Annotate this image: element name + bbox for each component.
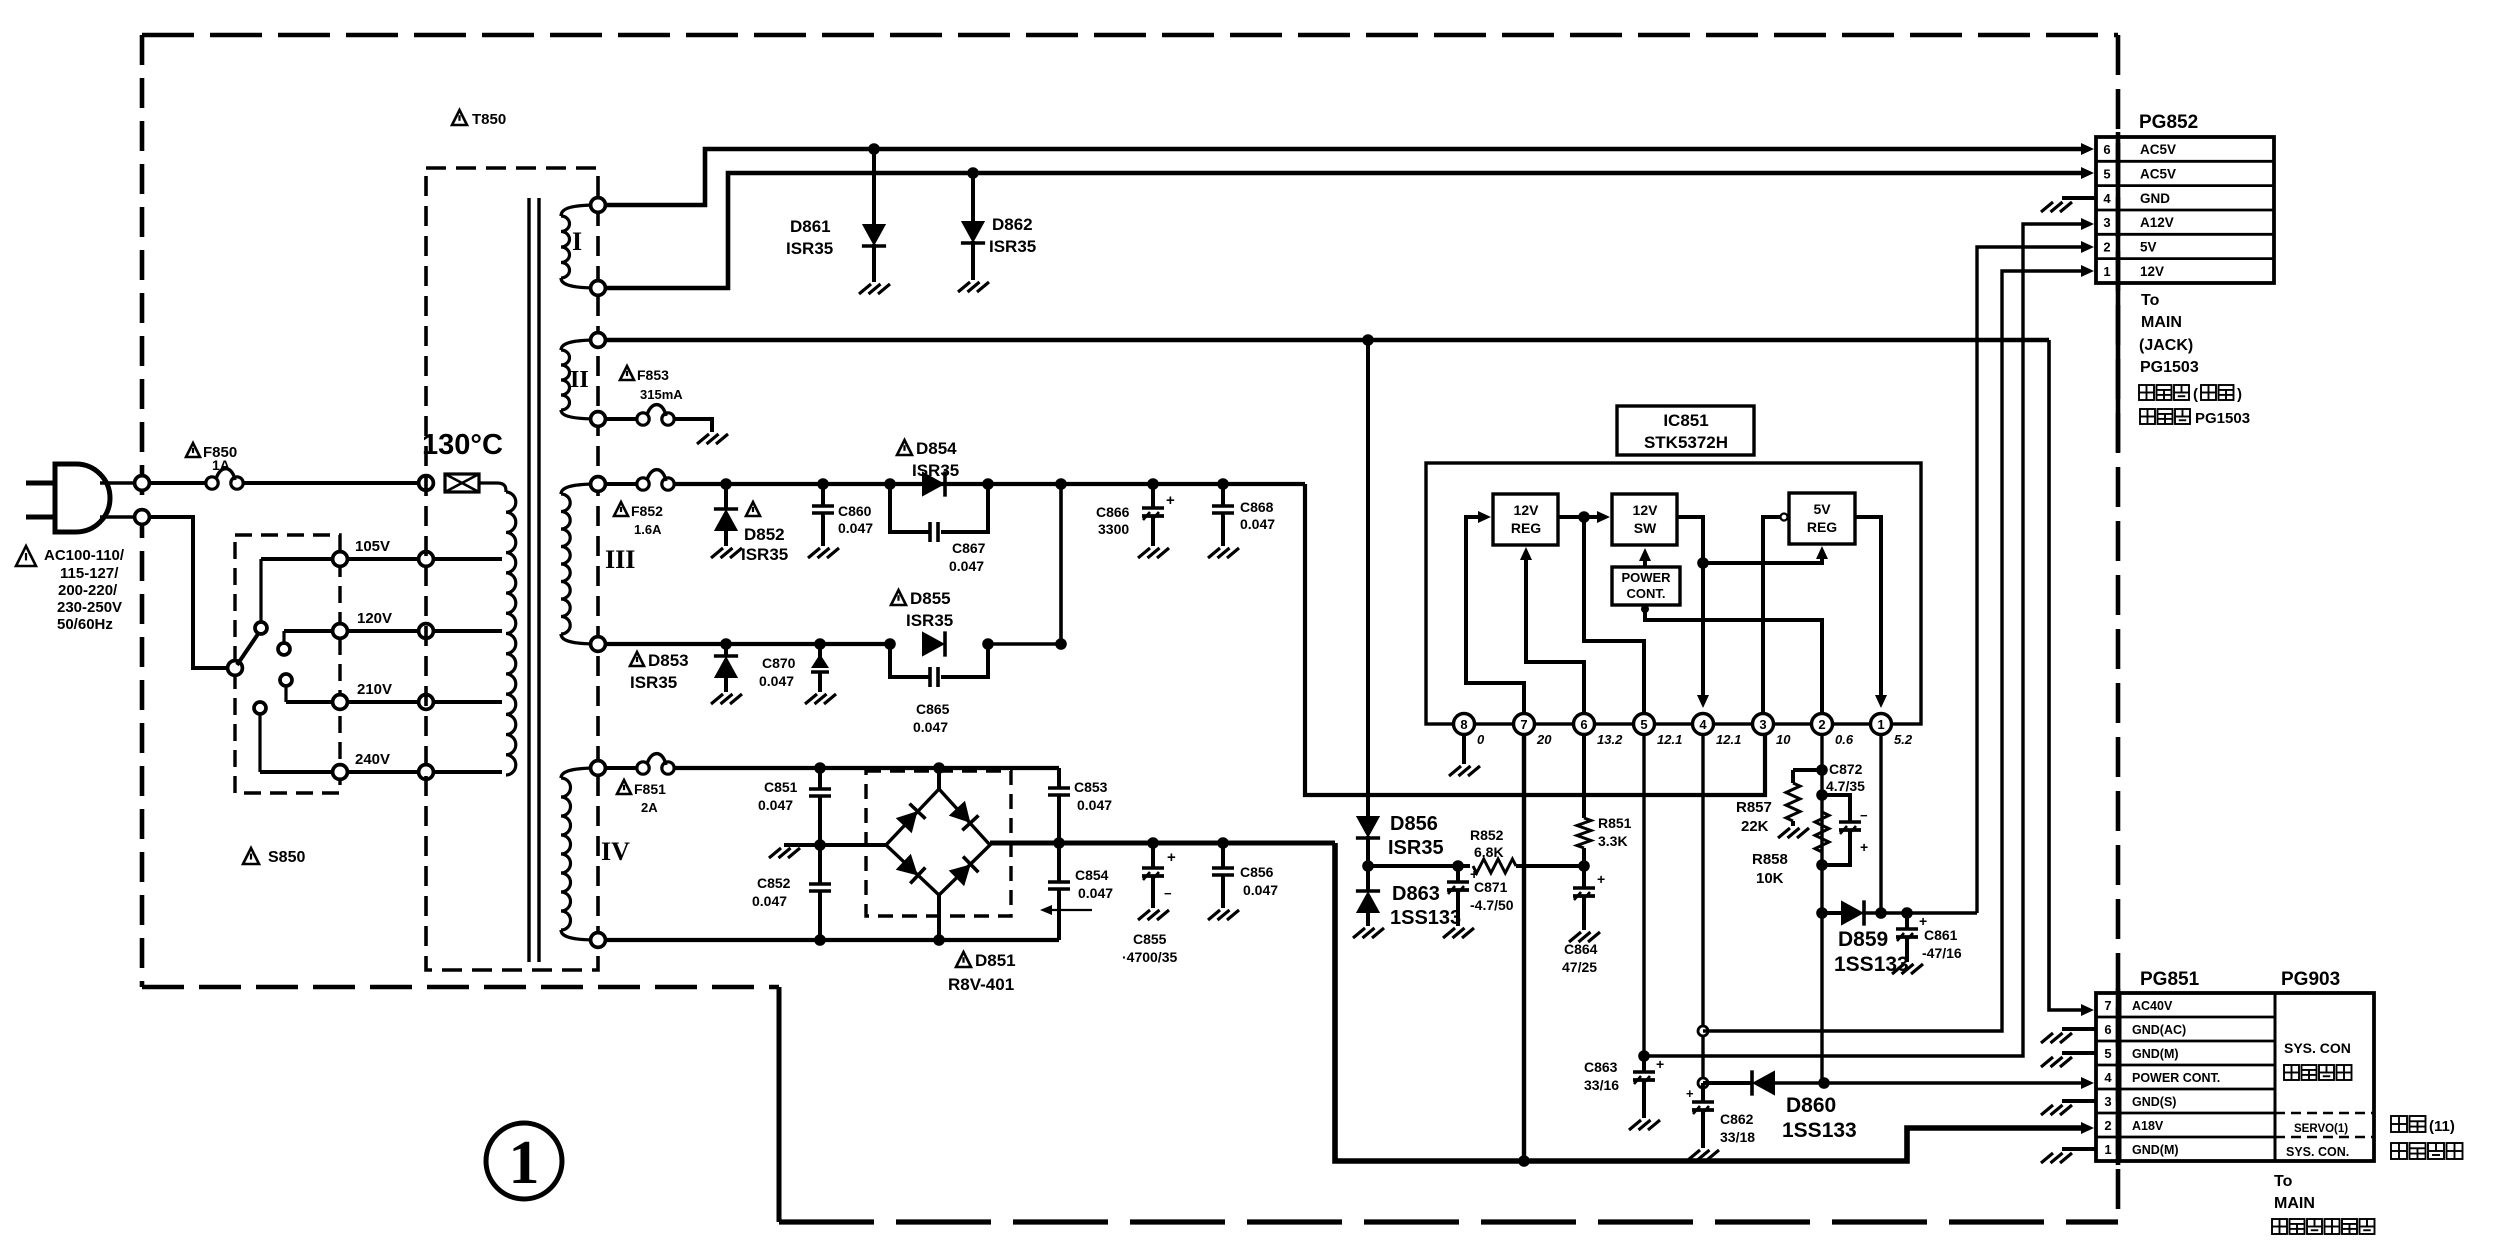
- arrow into pin1: [1875, 695, 1887, 708]
- node primary top: [419, 476, 434, 491]
- wire A18V rail: [1335, 843, 2082, 1161]
- wire POWER CONT to pin2: [1645, 604, 1822, 713]
- wire winding II bottom to F853: [604, 417, 637, 421]
- svg-text:3: 3: [2103, 215, 2110, 230]
- ground R857: [1778, 828, 1790, 838]
- wire 5V line: [1977, 247, 2082, 913]
- svg-text:230-250V: 230-250V: [57, 599, 122, 616]
- svg-text:CONT.: CONT.: [1627, 586, 1666, 601]
- wire pin3 to 5V REG input: [1763, 517, 1786, 713]
- arrow into PG852 pin5: [2081, 167, 2094, 179]
- svg-text:1: 1: [1877, 717, 1884, 732]
- svg-text:115-127/: 115-127/: [60, 565, 119, 582]
- node winding IV top: [591, 761, 606, 776]
- bridge D851 diode TR: [949, 801, 979, 831]
- capacitor C870 0.047: [818, 644, 822, 658]
- svg-text:GND: GND: [2140, 191, 2170, 206]
- wire pin6 to 12V REG bottom: [1526, 554, 1584, 713]
- block 5V REG: [1789, 493, 1855, 544]
- wire C865 loop: [890, 644, 929, 677]
- arrow into PG851 pin2: [2081, 1122, 2094, 1134]
- ground C870: [805, 694, 817, 704]
- label D854: [897, 440, 912, 455]
- svg-text:C868: C868: [1240, 499, 1274, 515]
- wire border solid through PG851: [2116, 988, 2121, 1165]
- svg-text:ISR35: ISR35: [630, 673, 677, 692]
- ground PG851 pin3: [2041, 1105, 2053, 1115]
- svg-text:(JACK): (JACK): [2139, 337, 2193, 354]
- svg-text:1: 1: [2103, 264, 2110, 279]
- capacitor C866 3300: [1151, 484, 1155, 508]
- wire bridge bottom: [937, 895, 941, 940]
- svg-text:10K: 10K: [1756, 870, 1784, 887]
- arrow 12V REG bottom: [1520, 547, 1532, 560]
- wire pin1 down: [1879, 734, 1882, 913]
- label D855: [891, 590, 906, 605]
- svg-text:0.047: 0.047: [758, 797, 793, 813]
- diode D861 1SR35: [872, 149, 876, 224]
- label F853: [620, 366, 634, 380]
- node C866 tap: [1147, 478, 1159, 490]
- resistor R852 6.8K: [1473, 859, 1516, 873]
- transformer primary winding: [497, 483, 506, 492]
- svg-text:(11): (11): [2429, 1118, 2455, 1135]
- svg-text:C867: C867: [952, 540, 986, 556]
- wire bridge minus: [784, 843, 886, 847]
- wire tap 210V: [286, 700, 502, 704]
- svg-text:+: +: [1597, 871, 1605, 887]
- svg-text:PG903: PG903: [2281, 969, 2340, 990]
- wire border solid through PG852: [2116, 132, 2121, 452]
- node C852 bottom: [814, 934, 826, 946]
- pin 3 IC851: [1753, 714, 1774, 735]
- node C860 tap: [817, 478, 829, 490]
- svg-text:12.1: 12.1: [1716, 732, 1741, 747]
- svg-text:C863: C863: [1584, 1059, 1618, 1075]
- node D854 left: [884, 478, 896, 490]
- ground C868: [1208, 548, 1220, 558]
- svg-text:4.7/35: 4.7/35: [1826, 778, 1865, 794]
- ground F853: [697, 434, 709, 444]
- svg-text:+: +: [1656, 1056, 1664, 1072]
- node C863 tap: [1638, 1050, 1650, 1062]
- svg-text:+: +: [1686, 1086, 1694, 1101]
- wire IV bottom line: [604, 938, 1059, 942]
- arrow 12V SW input: [1597, 511, 1610, 523]
- node AC line bottom: [135, 510, 150, 525]
- svg-text:IV: IV: [601, 837, 630, 866]
- svg-text:3.3K: 3.3K: [1598, 833, 1628, 849]
- svg-text:D856: D856: [1390, 813, 1438, 835]
- svg-text:R8V-401: R8V-401: [948, 975, 1014, 994]
- label AC voltage ratings: [16, 546, 36, 566]
- svg-text:F851: F851: [634, 781, 666, 797]
- node C861 tap: [1901, 907, 1913, 919]
- wire SW out to 5V REG bottom: [1703, 552, 1822, 563]
- svg-text:120V: 120V: [357, 610, 392, 627]
- capacitor C867 0.047: [928, 522, 932, 542]
- ground bridge minus: [769, 848, 781, 858]
- svg-text:5: 5: [2103, 167, 2110, 182]
- block POWER CONT: [1612, 567, 1680, 605]
- wire PG851 pin6 GND stub: [2062, 1027, 2096, 1031]
- ground PG851 pin6: [2041, 1033, 2053, 1043]
- node bridge bottom: [933, 934, 945, 946]
- svg-text:ISR35: ISR35: [906, 611, 953, 630]
- wire III top to F852: [604, 482, 637, 486]
- wire AC40V horizontal: [604, 338, 2049, 343]
- svg-text:REG: REG: [1807, 519, 1837, 535]
- svg-text:SYS. CON.: SYS. CON.: [2286, 1145, 2349, 1159]
- svg-text:1.6A: 1.6A: [634, 522, 662, 537]
- svg-text:AC5V: AC5V: [2140, 142, 2176, 157]
- pin 2 IC851: [1812, 714, 1833, 735]
- svg-text:C871: C871: [1474, 879, 1508, 895]
- wire 10V rail: [674, 482, 1305, 486]
- wire plug to selector S850: [148, 517, 228, 668]
- svg-text:PG1503: PG1503: [2195, 410, 2250, 427]
- node D854 right: [982, 478, 994, 490]
- node AC line top: [135, 476, 150, 491]
- svg-text:GND(M): GND(M): [2132, 1047, 2179, 1061]
- node winding I bottom: [591, 281, 606, 296]
- capacitor C868 0.047: [1221, 484, 1225, 506]
- node C870 tap: [814, 638, 826, 650]
- node pin4 D860 branch: [1698, 1078, 1708, 1088]
- svg-text:3: 3: [2104, 1094, 2111, 1109]
- svg-text:To: To: [2274, 1173, 2293, 1190]
- svg-text:1: 1: [2104, 1142, 2111, 1157]
- svg-text:AC40V: AC40V: [2132, 999, 2173, 1013]
- op-amp U1 IC851 outline: [1426, 463, 1921, 724]
- arrow into PG852 pin3: [2081, 218, 2094, 230]
- svg-text:PG852: PG852: [2139, 112, 2198, 133]
- node bridge top feed: [933, 762, 945, 774]
- wire pin4 down: [1701, 734, 1704, 1083]
- resistor R851 3.3K: [1582, 734, 1586, 818]
- svg-text:·4700/35: ·4700/35: [1122, 949, 1177, 965]
- svg-text:1SS133: 1SS133: [1834, 953, 1909, 976]
- annotation arrow: [1046, 909, 1092, 911]
- svg-text:C851: C851: [764, 779, 798, 795]
- svg-text:0.047: 0.047: [1077, 797, 1112, 813]
- svg-text:D862: D862: [992, 215, 1033, 234]
- block 12V REG: [1493, 494, 1558, 545]
- svg-text:R852: R852: [1470, 827, 1504, 843]
- svg-text:IC851: IC851: [1663, 411, 1708, 430]
- svg-text:5: 5: [1640, 717, 1647, 732]
- ground C864: [1569, 932, 1581, 942]
- svg-text:5V: 5V: [2140, 240, 2157, 255]
- svg-text:): ): [2237, 386, 2242, 403]
- svg-text:0: 0: [1477, 732, 1485, 747]
- wire outer dashed border right: [2116, 35, 2121, 1222]
- svg-text:D860: D860: [1786, 1094, 1836, 1117]
- svg-text:S850: S850: [268, 849, 305, 866]
- svg-text:GND(M): GND(M): [2132, 1143, 2179, 1157]
- capacitor C851 0.047: [818, 768, 822, 789]
- resistor R857 22K: [1793, 768, 1822, 772]
- arrow into PG852 pin6: [2081, 143, 2094, 155]
- capacitor C854 0.047: [1057, 843, 1061, 882]
- svg-text:D854: D854: [916, 439, 957, 458]
- node III join bottom: [1055, 638, 1067, 650]
- svg-text:POWER: POWER: [1621, 570, 1671, 585]
- label S850: [243, 848, 259, 864]
- arrow into PG851 pin7: [2081, 1004, 2094, 1016]
- diode D863 1SS133: [1366, 866, 1370, 891]
- wire tap 240V: [260, 770, 502, 774]
- svg-text:C861: C861: [1924, 927, 1958, 943]
- node tap 105V a: [333, 552, 348, 567]
- wire AC5V lower: [604, 173, 2082, 288]
- wire 10V rail to pin3: [1305, 484, 1765, 795]
- svg-text:C870: C870: [762, 655, 796, 671]
- label F850: [186, 443, 200, 457]
- svg-text:MAIN: MAIN: [2141, 314, 2182, 331]
- label To MAIN Chinese: [2139, 385, 2154, 400]
- svg-text:ISR35: ISR35: [912, 461, 959, 480]
- node winding II bottom: [591, 412, 606, 427]
- pin 5 IC851: [1634, 714, 1655, 735]
- svg-text:AC5V: AC5V: [2140, 167, 2176, 182]
- wire AC40V vertical: [2049, 340, 2082, 1010]
- node tap 240V b: [419, 765, 434, 780]
- ground D861: [859, 284, 871, 294]
- wire A-12V line: [1368, 864, 1470, 868]
- diode D862 1SR35: [971, 173, 975, 221]
- svg-text:7: 7: [1520, 717, 1527, 732]
- wire pin7 down: [1522, 734, 1526, 1161]
- wire A12V line: [1644, 224, 2082, 1056]
- capacitor C852 0.047: [818, 843, 822, 884]
- node winding I top: [591, 198, 606, 213]
- svg-text:0.047: 0.047: [949, 558, 984, 574]
- svg-text:210V: 210V: [357, 681, 392, 698]
- block 12V SW: [1612, 494, 1677, 545]
- arrow 12V REG input: [1478, 511, 1491, 523]
- ground PG851 pin5: [2041, 1057, 2053, 1067]
- label D851: [956, 952, 971, 967]
- svg-text:4: 4: [1699, 717, 1707, 732]
- wire III join vertical: [1059, 484, 1063, 644]
- node pin4 12V branch: [1698, 1026, 1708, 1036]
- connector PG852 rows: [2096, 160, 2274, 163]
- wire F850 to transformer: [243, 481, 426, 485]
- switch S850 contact 120V: [278, 643, 290, 655]
- svg-text:5V: 5V: [1813, 501, 1831, 517]
- wire IV top to F851: [604, 766, 637, 770]
- node tap 105V b: [419, 552, 434, 567]
- label D853: [630, 652, 644, 666]
- node C868 tap: [1217, 478, 1229, 490]
- arrow into pin4: [1697, 695, 1709, 708]
- svg-text:0.6: 0.6: [1835, 732, 1854, 747]
- wire PG852 pin4 GND stub: [2062, 196, 2096, 200]
- svg-text:D855: D855: [910, 589, 951, 608]
- node D856 tap: [1362, 334, 1374, 346]
- svg-text:C860: C860: [838, 503, 872, 519]
- wire tap 105V: [261, 557, 502, 561]
- transformer winding I: [561, 205, 598, 216]
- svg-text:6.8K: 6.8K: [1474, 844, 1504, 860]
- svg-text:R857: R857: [1736, 799, 1772, 816]
- capacitor C864 47/25: [1582, 866, 1586, 888]
- svg-text:1SS133: 1SS133: [1390, 907, 1461, 929]
- switch S850 contact 210V: [280, 674, 292, 686]
- bridge D851 diode BR: [949, 857, 979, 887]
- svg-text:22K: 22K: [1741, 818, 1769, 835]
- svg-text:C872: C872: [1829, 761, 1863, 777]
- arrow 5V REG bottom: [1816, 546, 1828, 559]
- pin 8 IC851: [1454, 714, 1475, 735]
- label T850: [452, 110, 467, 125]
- transformer winding IV: [561, 768, 598, 778]
- svg-text:C862: C862: [1720, 1111, 1754, 1127]
- ground C861: [1892, 964, 1904, 974]
- svg-text:C852: C852: [757, 875, 791, 891]
- ground C871: [1443, 928, 1455, 938]
- connector PG852 box: [2096, 137, 2274, 283]
- svg-text:C855: C855: [1133, 931, 1167, 947]
- svg-text:C856: C856: [1240, 864, 1274, 880]
- fuse F851 2A: [637, 762, 649, 774]
- svg-text:R858: R858: [1752, 851, 1788, 868]
- capacitor C853 0.047: [1057, 768, 1061, 788]
- diode D856 1SR35: [1366, 340, 1370, 816]
- node D856 out: [1362, 860, 1374, 872]
- svg-text:D859: D859: [1838, 928, 1888, 951]
- node pin1 D859 join: [1875, 907, 1887, 919]
- node tap 240V a: [333, 765, 348, 780]
- svg-text:50/60Hz: 50/60Hz: [57, 616, 113, 633]
- switch S850 box: [235, 535, 340, 793]
- svg-text:III: III: [605, 545, 635, 574]
- svg-text:1A: 1A: [212, 457, 230, 473]
- svg-text:T850: T850: [472, 111, 506, 128]
- svg-text:C853: C853: [1074, 779, 1108, 795]
- node winding IV bottom: [591, 933, 606, 948]
- svg-text:(: (: [2193, 386, 2198, 403]
- node winding III top: [591, 477, 606, 492]
- svg-text:1: 1: [509, 1129, 540, 1197]
- capacitor C855 4700/35: [1151, 843, 1155, 868]
- diode D860 1SS133: [1703, 1081, 1752, 1085]
- svg-text:0.047: 0.047: [752, 893, 787, 909]
- bridge rectifier D851 diamond: [886, 789, 990, 895]
- ground D863: [1353, 928, 1365, 938]
- pin 1 IC851: [1871, 714, 1892, 735]
- wire pin7 to 12V REG input: [1466, 517, 1524, 713]
- wire 18V output line: [990, 841, 1335, 846]
- svg-text:C866: C866: [1096, 504, 1130, 520]
- node D855 left: [884, 638, 896, 650]
- diode D855 1SR35: [922, 631, 945, 656]
- capacitor C861 47/16: [1905, 913, 1909, 929]
- capacitor C871 4.7/50: [1456, 866, 1460, 882]
- svg-text:6: 6: [1580, 717, 1587, 732]
- svg-text:20: 20: [1536, 732, 1552, 747]
- switch S850 arm: [237, 634, 258, 665]
- svg-text:D863: D863: [1392, 883, 1440, 905]
- capacitor C860 0.047: [821, 484, 825, 506]
- svg-text:C854: C854: [1075, 867, 1109, 883]
- switch S850 contact 105V: [255, 622, 267, 634]
- svg-text:D852: D852: [744, 525, 785, 544]
- node SW out branch: [1697, 557, 1709, 569]
- wire POWER CONT to SW: [1643, 556, 1647, 567]
- pin 6 IC851: [1574, 714, 1595, 735]
- node winding III bottom: [591, 637, 606, 652]
- wire outer dashed border left: [140, 35, 145, 987]
- label servo Chinese: [2391, 1116, 2407, 1132]
- wire tap 120V: [284, 629, 502, 633]
- resistor R858 10K: [1815, 812, 1829, 852]
- svg-text:0.047: 0.047: [1243, 882, 1278, 898]
- wire C867 loop: [890, 484, 929, 532]
- svg-text:−: −: [1860, 808, 1868, 823]
- arrow into 12V SW bottom: [1639, 548, 1651, 561]
- svg-text:105V: 105V: [355, 538, 390, 555]
- node R858 top: [1816, 789, 1828, 801]
- diode D854 1SR35: [922, 471, 945, 496]
- node D852 tap: [720, 478, 732, 490]
- bridge D851 diode TL: [896, 804, 926, 834]
- transformer winding II: [561, 340, 598, 350]
- label F852: [614, 502, 628, 516]
- svg-text:STK5372H: STK5372H: [1644, 433, 1728, 452]
- diode D852 1SR35: [724, 484, 728, 509]
- label F851: [617, 780, 631, 794]
- fuse F852 1.6A: [637, 478, 649, 490]
- ground PG852 pin4: [2041, 202, 2053, 212]
- svg-text:12V: 12V: [1514, 502, 1540, 518]
- node D861 tap: [868, 143, 880, 155]
- svg-text:SERVO(1): SERVO(1): [2294, 1123, 2348, 1135]
- node C855 tap: [1147, 837, 1159, 849]
- ground D853: [711, 694, 723, 704]
- wire F853 to ground: [674, 419, 712, 432]
- bridge rectifier D851 box: [866, 771, 1011, 916]
- svg-text:2: 2: [2103, 240, 2110, 255]
- capacitor C862 33/18: [1701, 1083, 1705, 1102]
- svg-text:GND(S): GND(S): [2132, 1095, 2176, 1109]
- svg-text:0.047: 0.047: [759, 673, 794, 689]
- connector PG851 box: [2096, 993, 2374, 1161]
- svg-text:ISR35: ISR35: [1388, 837, 1444, 859]
- svg-text:6: 6: [2104, 1022, 2111, 1037]
- wire 12V line: [1703, 271, 2082, 1031]
- svg-text:0.047: 0.047: [1078, 885, 1113, 901]
- svg-text:R851: R851: [1598, 815, 1632, 831]
- svg-text:13.2: 13.2: [1597, 732, 1623, 747]
- svg-text:D851: D851: [975, 951, 1016, 970]
- node winding II top: [591, 333, 606, 348]
- svg-text:MAIN: MAIN: [2274, 1195, 2315, 1212]
- node D855 right: [982, 638, 994, 650]
- ground C856: [1208, 910, 1220, 920]
- wire pin2 down: [1820, 734, 1823, 1083]
- node C851 top: [814, 762, 826, 774]
- ground D852: [711, 548, 723, 558]
- wire 12V REG out to SW: [1558, 515, 1601, 519]
- wire D855 out: [988, 642, 1061, 646]
- svg-text:0.047: 0.047: [838, 520, 873, 536]
- svg-text:3: 3: [1759, 717, 1766, 732]
- svg-text:2: 2: [2104, 1118, 2111, 1133]
- ground pin8: [1449, 766, 1461, 776]
- svg-text:POWER CONT.: POWER CONT.: [2132, 1071, 2220, 1085]
